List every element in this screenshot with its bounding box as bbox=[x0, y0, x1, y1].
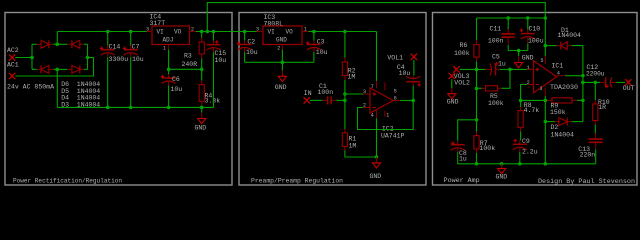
ground symbol left box bbox=[201, 107, 203, 112]
svg-text:TDA2030: TDA2030 bbox=[550, 84, 578, 91]
resistor R4 3.3k bbox=[201, 69, 203, 80]
wire V+ rail down to pin 7 bbox=[376, 32, 378, 82]
wire ground rail left box bbox=[57, 106, 213, 108]
svg-text:10u: 10u bbox=[171, 86, 183, 93]
svg-text:24v AC 850mA: 24v AC 850mA bbox=[7, 84, 54, 91]
wire bias node to C8 bbox=[458, 120, 477, 141]
svg-text:1M: 1M bbox=[348, 73, 356, 80]
svg-text:Design By Paul Stevenson: Design By Paul Stevenson bbox=[538, 178, 635, 185]
capacitor C3 10u bbox=[313, 32, 315, 41]
svg-text:1: 1 bbox=[386, 112, 389, 118]
ground symbol VOL2 bbox=[451, 88, 453, 94]
resistor R3 240R bbox=[201, 32, 203, 38]
svg-text:C2: C2 bbox=[247, 38, 255, 45]
capacitor C10 100u bbox=[527, 18, 529, 30]
svg-text:3.3k: 3.3k bbox=[205, 98, 221, 105]
svg-text:1: 1 bbox=[527, 65, 530, 71]
capacitor C7 10u bbox=[130, 32, 132, 46]
wire bridge bottom rail bbox=[32, 68, 37, 70]
wire V+ rail power amp bbox=[477, 17, 546, 19]
wire C5 to pin 1 node bbox=[500, 68, 510, 70]
resistor R1 1M to ground bbox=[344, 100, 346, 129]
wire bridge right wall bbox=[87, 44, 89, 69]
node noninverting input bbox=[343, 92, 347, 96]
wire IC3 gnd down bbox=[281, 50, 283, 63]
svg-text:C10: C10 bbox=[529, 25, 541, 32]
svg-text:4: 4 bbox=[371, 112, 374, 118]
svg-text:10u: 10u bbox=[399, 70, 411, 77]
capacitor C6 10u bbox=[168, 69, 170, 74]
resistor R6 100k bbox=[476, 18, 478, 40]
svg-text:1R: 1R bbox=[598, 104, 606, 111]
wire top jumper V+ to power amp bbox=[207, 3, 545, 32]
svg-text:UA741P: UA741P bbox=[381, 133, 405, 140]
connector OUT bbox=[625, 79, 631, 85]
wire output to junction bbox=[565, 75, 583, 77]
node AC1 junction bbox=[86, 56, 90, 60]
ground symbol op-amp bbox=[376, 157, 378, 163]
svg-text:240R: 240R bbox=[182, 61, 198, 68]
svg-text:100u: 100u bbox=[528, 38, 544, 45]
svg-text:100n: 100n bbox=[488, 38, 504, 45]
diode D4 bridge bottom-left bbox=[41, 65, 49, 73]
svg-text:10u: 10u bbox=[316, 49, 328, 56]
wire to op-amp + input bbox=[345, 93, 363, 95]
svg-text:1u: 1u bbox=[498, 60, 506, 67]
resistor R5 100k bbox=[477, 87, 482, 89]
capacitor C12 2200u bbox=[600, 81, 604, 83]
svg-text:R1: R1 bbox=[349, 135, 357, 142]
resistor R9 150k feedback bbox=[547, 99, 552, 101]
svg-text:2.2u: 2.2u bbox=[522, 148, 538, 155]
svg-text:IN: IN bbox=[304, 90, 312, 97]
svg-text:1N4004: 1N4004 bbox=[551, 131, 575, 138]
wire C12 to OUT bbox=[616, 81, 625, 83]
svg-text:2: 2 bbox=[277, 45, 280, 51]
capacitor C14 3300u bbox=[107, 32, 109, 46]
svg-text:10u: 10u bbox=[215, 57, 227, 64]
node bridge minus output bbox=[56, 68, 60, 72]
capacitor C11 100n bbox=[507, 18, 509, 29]
svg-text:10u: 10u bbox=[132, 56, 144, 63]
svg-text:VOL2: VOL2 bbox=[454, 79, 470, 86]
svg-text:GND: GND bbox=[276, 37, 287, 44]
svg-text:R5: R5 bbox=[490, 93, 498, 100]
wire AC1 to bridge right bbox=[15, 58, 93, 77]
svg-text:R3: R3 bbox=[184, 53, 192, 60]
wire preamp ground rail bbox=[245, 61, 314, 63]
capacitor C4 10u output coupling bbox=[413, 60, 415, 75]
node bridge plus output bbox=[56, 43, 60, 47]
svg-text:C11: C11 bbox=[490, 25, 502, 32]
svg-text:GND: GND bbox=[195, 125, 207, 132]
svg-text:100k: 100k bbox=[480, 145, 496, 152]
capacitor C13 220n bbox=[595, 134, 597, 139]
wire bridge top rail bbox=[32, 43, 37, 45]
wire bias divider node bbox=[476, 69, 478, 119]
op-amp IC2 UA741P bbox=[370, 88, 393, 113]
wire pin 1 of IC1 bbox=[510, 68, 527, 70]
svg-text:C7: C7 bbox=[132, 44, 140, 51]
svg-text:10u: 10u bbox=[246, 49, 258, 56]
ground symbol supply caps bbox=[518, 51, 520, 57]
capacitor C8 1u bbox=[457, 141, 459, 145]
svg-text:1: 1 bbox=[163, 45, 166, 51]
wire IN to C1 bbox=[310, 99, 322, 101]
capacitor C2 10u bbox=[244, 32, 246, 41]
resistor R10 1R bbox=[594, 82, 596, 100]
svg-text:D2: D2 bbox=[551, 124, 559, 131]
svg-text:VI: VI bbox=[268, 29, 275, 36]
svg-text:5: 5 bbox=[541, 58, 544, 64]
ground symbol preamp regulator bbox=[281, 62, 283, 70]
wire output node down bbox=[582, 76, 584, 122]
wire pin 2 node bbox=[521, 85, 527, 101]
section frame right bbox=[433, 13, 638, 186]
section frame left bbox=[5, 13, 232, 186]
svg-text:IC2: IC2 bbox=[382, 125, 394, 132]
svg-text:GND: GND bbox=[275, 84, 287, 91]
capacitor C15 10u bbox=[213, 32, 215, 41]
diode D3 bridge bottom-right bbox=[72, 65, 80, 73]
capacitor C5 1u input coupling bbox=[485, 68, 491, 70]
wire V+ rail to IC4 bbox=[57, 31, 146, 33]
svg-text:C3: C3 bbox=[317, 39, 325, 46]
svg-text:150k: 150k bbox=[550, 109, 566, 116]
svg-text:AC1: AC1 bbox=[7, 62, 19, 69]
diode D5 bridge top-right bbox=[72, 40, 80, 48]
svg-text:IC1: IC1 bbox=[552, 63, 564, 70]
svg-text:5: 5 bbox=[394, 88, 397, 94]
svg-text:Power Amp: Power Amp bbox=[444, 177, 480, 184]
capacitor C1 100n bbox=[322, 99, 326, 101]
section frame middle bbox=[239, 13, 426, 186]
svg-text:3: 3 bbox=[540, 86, 543, 92]
amplifier IC1 TDA2030 bbox=[534, 61, 557, 93]
svg-text:VI: VI bbox=[157, 29, 164, 36]
wire IC3 output rail bbox=[309, 31, 377, 33]
svg-text:AC2: AC2 bbox=[7, 47, 19, 54]
wire IC4 adj down bbox=[169, 50, 202, 70]
wire output rail to C12 bbox=[583, 81, 600, 83]
wire bridge left wall bbox=[31, 44, 33, 69]
svg-text:4.7k: 4.7k bbox=[524, 107, 540, 114]
svg-text:C15: C15 bbox=[215, 50, 227, 57]
svg-text:VOL1: VOL1 bbox=[387, 54, 403, 61]
resistor R2 1M bias bbox=[344, 32, 346, 58]
svg-text:OUT: OUT bbox=[623, 85, 635, 92]
svg-text:GND: GND bbox=[370, 173, 382, 180]
svg-text:C9: C9 bbox=[522, 138, 530, 145]
svg-text:1u: 1u bbox=[459, 156, 467, 163]
svg-text:100k: 100k bbox=[454, 50, 470, 57]
wire feedback node rail bbox=[521, 99, 547, 101]
wire feedback loop bbox=[358, 101, 414, 130]
svg-text:2200u: 2200u bbox=[586, 71, 605, 78]
svg-text:ADJ: ADJ bbox=[163, 37, 174, 44]
svg-text:VO: VO bbox=[174, 29, 182, 36]
wire VOL3 to C5 bbox=[460, 68, 486, 70]
svg-text:VO: VO bbox=[286, 29, 294, 36]
svg-text:Power Rectification/Regulation: Power Rectification/Regulation bbox=[13, 178, 122, 185]
node AC2 junction bbox=[30, 56, 34, 60]
svg-text:GND: GND bbox=[447, 99, 459, 106]
svg-text:GND: GND bbox=[496, 173, 508, 180]
svg-text:1N4004: 1N4004 bbox=[558, 32, 582, 39]
svg-text:GND: GND bbox=[522, 55, 534, 62]
wire power amp ground rail bbox=[458, 163, 596, 165]
diode D6 bridge top-left bbox=[41, 40, 49, 48]
svg-text:C14: C14 bbox=[109, 44, 121, 51]
resistor R8 4.7k bbox=[520, 100, 522, 107]
wire op-amp output bbox=[400, 100, 413, 102]
wire IC4 output rail bbox=[196, 31, 257, 33]
svg-text:3300u: 3300u bbox=[109, 56, 129, 63]
wire VOL2 to ground bbox=[451, 79, 453, 88]
svg-text:R6: R6 bbox=[460, 42, 468, 49]
ground symbol power amp bbox=[501, 164, 503, 169]
wire supply cap ground rail bbox=[508, 50, 528, 52]
svg-text:7: 7 bbox=[371, 84, 374, 90]
svg-text:1M: 1M bbox=[349, 142, 357, 149]
wire pin 3 column bbox=[544, 96, 546, 164]
svg-text:C6: C6 bbox=[172, 76, 180, 83]
capacitor C9 2.2u bbox=[519, 140, 521, 144]
svg-text:100k: 100k bbox=[488, 100, 504, 107]
svg-text:Preamp/Preamp Regulation: Preamp/Preamp Regulation bbox=[251, 178, 343, 185]
svg-text:100n: 100n bbox=[318, 89, 334, 96]
wire C1 to node bbox=[336, 99, 345, 101]
svg-text:220n: 220n bbox=[580, 152, 596, 159]
resistor R7 100k bbox=[476, 120, 478, 132]
wire AC2 to bridge bbox=[15, 57, 32, 59]
wire pin 4 to ground bbox=[376, 118, 378, 157]
wire V+ down to pin5 node bbox=[544, 18, 546, 46]
